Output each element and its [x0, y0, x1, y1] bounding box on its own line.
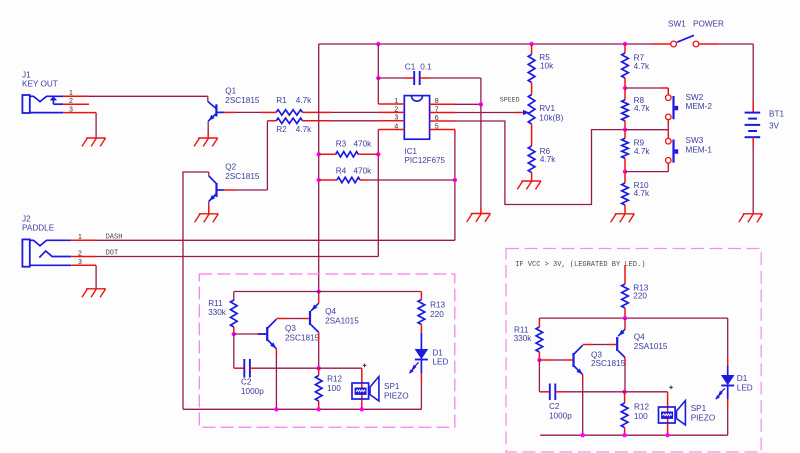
node SP1b rail junction — [665, 433, 669, 437]
label R7 — [634, 54, 645, 63]
pin J2.2 lead — [71, 256, 96, 258]
wire D1 to bottom rail — [420, 373, 422, 409]
wire R7 bottom lead — [624, 78, 626, 88]
svg-text:330k: 330k — [208, 308, 227, 317]
wire node to SP1 — [319, 368, 362, 409]
label C2b — [549, 402, 560, 411]
wire SW2 top — [625, 88, 668, 95]
label D1 — [432, 348, 443, 357]
svg-text:J1: J1 — [22, 70, 31, 79]
wire R13b bottom lead — [624, 308, 626, 318]
resistor R12b top lead — [624, 392, 626, 403]
label Q3 2SC1815 — [285, 333, 320, 342]
pin IC1.8 lead — [430, 103, 456, 105]
svg-text:470k: 470k — [354, 167, 373, 176]
node Q4 collector junction — [317, 366, 321, 370]
label IC1 PIC12F675 — [405, 156, 446, 165]
label RV1 value 10k(B) — [539, 114, 563, 123]
svg-text:C1: C1 — [405, 63, 416, 72]
label Q2 — [225, 163, 236, 172]
svg-text:RV1: RV1 — [539, 104, 555, 113]
wire R2 to IC pin3 — [331, 120, 378, 122]
wiper arrow RV1 — [523, 110, 529, 115]
label R4 — [336, 167, 347, 176]
label R2 value 4.7k — [296, 125, 312, 134]
pin number IC1.5 — [435, 123, 439, 130]
pin J1.1 lead — [63, 95, 89, 97]
label R8 value 4.7k — [634, 104, 650, 113]
pin IC1.7 lead — [430, 112, 456, 114]
wire box bottom rail — [183, 408, 421, 410]
svg-text:2SA1015: 2SA1015 — [325, 316, 359, 325]
label Q2 2SC1815 — [225, 172, 260, 181]
label R11 value 330k — [208, 308, 227, 317]
wire R5 to RV1 — [531, 83, 533, 95]
label R7 value 4.7k — [634, 62, 650, 71]
label Q4 — [325, 307, 336, 316]
label SW3 — [686, 136, 704, 145]
wire R9 top lead — [624, 130, 626, 139]
wire Q2 emitter — [208, 201, 210, 213]
wire SW3 top — [625, 130, 668, 139]
wire DOT line — [96, 256, 378, 258]
label R13b — [633, 283, 648, 292]
resistor R6 — [528, 146, 535, 173]
wire R8 bottom lead — [624, 121, 626, 130]
connector J1 tip contact — [30, 96, 64, 101]
wire SW2 bottom — [625, 120, 668, 130]
node R3 left junction — [317, 152, 321, 156]
pin number IC1.2 — [394, 106, 398, 113]
svg-text:5: 5 — [435, 123, 439, 130]
wire box top rail — [234, 291, 422, 293]
wire R1 right lead — [303, 111, 332, 113]
label R10 value 4.7k — [634, 189, 650, 198]
wire D1b to bottom rail — [727, 399, 729, 435]
svg-text:PADDLE: PADDLE — [22, 224, 55, 233]
wire R4 left lead — [319, 179, 337, 181]
svg-text:Q4: Q4 — [634, 333, 645, 342]
wire R2 left lead — [267, 120, 276, 122]
label Q1 — [225, 87, 236, 96]
wire RV1 to R6 — [531, 124, 533, 146]
connector J2 tip contact — [30, 240, 71, 246]
switch SW2 — [666, 95, 679, 120]
wire SP1b bottom lead — [0, 0, 1, 1]
node R11b Q3b junction — [537, 358, 541, 362]
label R5 — [539, 53, 550, 62]
label POWER — [693, 20, 724, 29]
node R4 left junction — [317, 178, 321, 182]
battery BT1 — [745, 102, 761, 214]
svg-text:220: 220 — [430, 310, 444, 319]
net label DOT — [106, 250, 119, 258]
svg-text:100: 100 — [634, 412, 648, 421]
transistor Q1 collector wire — [207, 96, 209, 101]
label R11b — [514, 326, 529, 335]
resistor R13b top stub — [624, 265, 626, 284]
wire right box top rail — [539, 317, 727, 319]
ground Q1 — [194, 138, 218, 146]
wire R5 top lead — [531, 44, 533, 54]
wire pin8 to ground column — [455, 103, 481, 105]
label R12b — [634, 403, 649, 412]
label R6 value 4.7k — [540, 155, 556, 164]
svg-text:Q2: Q2 — [225, 163, 236, 172]
transistor Q4b — [617, 329, 625, 357]
wire DASH line — [96, 239, 455, 241]
label SW1 — [668, 20, 686, 29]
pin number IC1.4 — [394, 123, 398, 130]
wire Q1 base to R1 — [235, 111, 261, 113]
label C2 value 1000p — [241, 387, 264, 396]
led D1 — [409, 349, 428, 374]
svg-text:BT1: BT1 — [769, 110, 784, 119]
pin number J1.1 — [69, 90, 73, 97]
svg-text:4: 4 — [394, 123, 398, 130]
plus marker SP1 — [363, 364, 367, 368]
wire J2.3 to ground — [95, 265, 97, 289]
wire Q4 collector down — [318, 332, 320, 368]
label R9 value 4.7k — [634, 147, 650, 156]
pin IC1.6 lead — [430, 120, 456, 122]
label SP1 — [384, 382, 400, 391]
wire J1.1 to Q1 collector — [89, 95, 208, 97]
wire VCC top rail — [319, 43, 671, 45]
wire VCC to C1 column — [377, 44, 379, 78]
svg-text:4.7k: 4.7k — [634, 189, 650, 198]
node pin5 R4 junction — [453, 178, 457, 182]
wire Q3b emitter down — [582, 375, 584, 436]
pin number IC1.8 — [435, 98, 439, 105]
pin number J2.2 — [78, 251, 82, 258]
wire R9 bottom lead — [624, 158, 626, 171]
wire pin7 to RV1 wiper — [455, 112, 524, 114]
label R12b value 100 — [634, 412, 648, 421]
wire R4 right lead — [360, 179, 369, 181]
wire Q3 collector to Q4 base — [276, 318, 308, 320]
pin J1.3 lead — [63, 112, 88, 114]
ground BT1 — [739, 214, 763, 222]
resistor R4 — [337, 177, 360, 182]
node VCC junction R7 — [623, 42, 627, 46]
svg-text:Q4: Q4 — [325, 307, 336, 316]
ic IC1 body — [404, 96, 429, 140]
label J1 — [22, 70, 31, 79]
switch SW1 — [671, 35, 699, 47]
ground IC1 VSS — [467, 214, 491, 222]
svg-text:D1: D1 — [737, 374, 748, 383]
wire R3 right lead — [358, 153, 378, 155]
svg-text:R11: R11 — [208, 299, 223, 308]
resistor R11 — [231, 300, 238, 327]
svg-text:10k: 10k — [540, 62, 554, 71]
wire rail to D1b — [727, 318, 729, 375]
label D1b — [737, 374, 748, 383]
label C1 — [405, 63, 416, 72]
svg-text:R4: R4 — [336, 167, 347, 176]
wire Q2 base to R2 — [235, 121, 267, 190]
wire R1 left lead — [261, 111, 276, 113]
svg-text:10k(B): 10k(B) — [539, 114, 563, 123]
svg-text:J2: J2 — [22, 214, 31, 223]
svg-text:4.7k: 4.7k — [634, 104, 650, 113]
resistor R10 — [622, 183, 629, 205]
svg-text:SPEED: SPEED — [500, 96, 520, 103]
svg-text:SW1: SW1 — [668, 20, 686, 29]
svg-text:8: 8 — [435, 98, 439, 105]
svg-text:R2: R2 — [276, 125, 287, 134]
resistor R12 top lead — [318, 368, 320, 375]
wire R11b junction to C2b — [538, 360, 540, 392]
svg-text:1: 1 — [69, 90, 73, 97]
wire R6 bottom lead — [531, 173, 533, 182]
resistor R12b — [621, 403, 628, 428]
node VCC junction R5 — [529, 42, 533, 46]
label R5 value 10k — [540, 62, 554, 71]
label SW3 MEM-1 — [686, 146, 713, 155]
wire node to SP1b — [625, 392, 668, 435]
wire Q3b collector to Q4b base — [583, 344, 617, 346]
node SP1 rail junction — [360, 407, 364, 411]
transistor Q2 collector stub — [208, 172, 210, 176]
wire SP1 bottom lead — [0, 0, 1, 1]
svg-text:1000p: 1000p — [549, 412, 572, 421]
speaker SP1b — [659, 401, 686, 425]
pin Q2 base lead — [224, 189, 235, 191]
net label SPEED — [500, 96, 520, 103]
wire VSS column down — [480, 104, 482, 213]
svg-text:4.7k: 4.7k — [634, 62, 650, 71]
svg-text:C2: C2 — [549, 402, 560, 411]
svg-text:R1: R1 — [276, 96, 287, 105]
node Q4b collector junction — [622, 390, 626, 394]
svg-text:D1: D1 — [432, 348, 443, 357]
wire R11b top lead — [538, 318, 540, 327]
label R4 value 470k — [354, 167, 373, 176]
svg-text:SP1: SP1 — [691, 404, 707, 413]
ground J2 — [82, 289, 106, 297]
box sidetone circuit (dashed) — [199, 274, 454, 427]
svg-text:R13: R13 — [430, 301, 445, 310]
wire R11 to Q3 base — [234, 333, 266, 335]
label R11b value 330k — [514, 334, 533, 343]
svg-text:3: 3 — [78, 259, 82, 266]
pin J2.3 lead — [71, 264, 96, 266]
label D1 LED — [432, 358, 448, 367]
capacitor C1 left lead — [378, 77, 414, 79]
node Q3 emitter rail junction — [274, 407, 278, 411]
svg-text:SP1: SP1 — [384, 382, 400, 391]
connector J1 sleeve pin3 — [30, 112, 64, 114]
label C2 — [241, 378, 252, 387]
label C1 value 0.1 — [420, 63, 432, 72]
wire C2 to Q4 collector — [258, 367, 319, 369]
label SP1b PIEZO — [691, 414, 716, 423]
wire VCC rail to SW1 right / BT1 — [699, 44, 753, 102]
pin IC1.5 lead — [430, 129, 456, 131]
label SW2 MEM-2 — [686, 102, 713, 111]
resistor R12 — [315, 376, 322, 402]
label J2 — [22, 214, 31, 223]
wire pin6 to MEM switches — [455, 121, 625, 205]
label SP1b — [691, 404, 707, 413]
svg-text:LED: LED — [737, 383, 753, 392]
svg-text:MEM-2: MEM-2 — [686, 102, 713, 111]
connector J2 sleeve pin3 — [30, 264, 71, 266]
ground R6 — [517, 181, 541, 189]
capacitor C2b — [550, 384, 556, 401]
resistor R3 — [336, 152, 359, 157]
svg-text:4.7k: 4.7k — [296, 96, 312, 105]
node R9 R10 junction — [623, 169, 627, 173]
wire R12 bottom lead — [318, 401, 320, 409]
svg-text:Q3: Q3 — [285, 324, 296, 333]
capacitor C2b left lead — [539, 391, 549, 393]
node R12 rail junction — [317, 407, 321, 411]
capacitor C2 — [244, 359, 250, 378]
svg-text:220: 220 — [633, 292, 647, 301]
wire C1 to VSS column — [430, 78, 481, 104]
switch SW3 — [666, 138, 679, 163]
transistor Q3 — [258, 319, 276, 349]
connector J2 ring contact — [39, 251, 71, 258]
svg-text:PIEZO: PIEZO — [691, 414, 716, 423]
connector J1 switch contact pin2 — [50, 96, 64, 104]
svg-text:POWER: POWER — [693, 20, 724, 29]
label SW2 — [686, 93, 704, 102]
svg-text:LED: LED — [432, 358, 448, 367]
svg-text:PIEZO: PIEZO — [384, 392, 409, 401]
wire R13 to D1 — [420, 325, 422, 350]
node pin4 R3 junction — [376, 152, 380, 156]
node R13b rail junction — [623, 316, 627, 320]
svg-text:6: 6 — [435, 115, 439, 122]
label R13b value 220 — [633, 292, 647, 301]
connector J2 jack body — [22, 239, 29, 266]
pin J2.1 lead — [71, 239, 96, 241]
svg-text:C2: C2 — [241, 378, 252, 387]
wire Q4b collector down — [624, 358, 626, 392]
pin number J1.3 — [69, 106, 73, 113]
svg-text:2: 2 — [69, 98, 73, 105]
svg-text:100: 100 — [327, 384, 341, 393]
resistor R13 top lead — [420, 292, 422, 300]
resistor R2 — [276, 118, 302, 123]
ground Q2 — [195, 214, 219, 222]
svg-text:R12: R12 — [327, 375, 342, 384]
label R12 — [327, 375, 342, 384]
wire C1 column to pin1 — [377, 78, 379, 104]
resistor R8 — [622, 100, 629, 121]
label Q3 — [285, 324, 296, 333]
label R8 — [634, 96, 645, 105]
label KEY OUT — [22, 80, 58, 89]
note IF VCC > 3V — [515, 261, 645, 269]
box alternate sidetone circuit (dashed) — [506, 249, 761, 453]
node R12b rail junction — [622, 433, 626, 437]
wire R12b bottom lead — [624, 428, 626, 436]
svg-text:1: 1 — [394, 98, 398, 105]
node C1 left junction — [376, 76, 380, 80]
svg-text:R3: R3 — [336, 140, 347, 149]
wire R10 bottom lead — [624, 205, 626, 214]
label Q3b 2SC1815 — [591, 359, 626, 368]
pin IC1.4 lead — [378, 129, 404, 131]
svg-text:SW2: SW2 — [686, 93, 704, 102]
label Q1 2SC1815 — [225, 96, 260, 105]
potentiometer RV1 — [528, 95, 535, 125]
svg-text:DASH: DASH — [106, 233, 123, 241]
label R12 value 100 — [327, 384, 341, 393]
wire R10 top lead — [624, 172, 626, 183]
label RV1 — [539, 104, 555, 113]
resistor R13b — [622, 284, 629, 308]
wire Q4b emitter lead — [624, 318, 626, 329]
label R13 — [430, 301, 445, 310]
pin IC1.3 lead — [378, 120, 404, 122]
speaker SP1 — [352, 377, 379, 401]
wire Q2 collector net — [183, 172, 209, 409]
svg-text:4.7k: 4.7k — [634, 147, 650, 156]
wire VCC into box junction — [317, 289, 321, 293]
label R10 — [634, 181, 649, 190]
svg-text:3V: 3V — [769, 122, 780, 131]
node VCC junction C1 column — [376, 42, 380, 46]
capacitor C2 left lead — [234, 367, 245, 369]
wire pin5 corner down — [454, 130, 456, 241]
resistor R13 — [418, 300, 425, 325]
label R1 value 4.7k — [296, 96, 312, 105]
resistor R7 — [622, 53, 629, 78]
connector J1 jack body — [22, 95, 29, 113]
wire Q1 emitter — [207, 121, 209, 138]
wire Q3 emitter down — [275, 349, 277, 410]
pin number IC1.3 — [394, 115, 398, 122]
label R2 — [276, 125, 287, 134]
svg-text:470k: 470k — [354, 140, 373, 149]
pin number IC1.7 — [435, 106, 439, 113]
svg-text:3: 3 — [394, 115, 398, 122]
pin IC1.1 lead — [378, 103, 404, 105]
resistor R9 — [622, 138, 629, 158]
svg-text:4.7k: 4.7k — [296, 125, 312, 134]
capacitor C1 right lead — [420, 77, 430, 79]
svg-text:3: 3 — [69, 106, 73, 113]
wire Q4 emitter lead — [318, 292, 320, 304]
led D1b — [715, 375, 734, 400]
wire SW3 bottom — [625, 163, 668, 171]
pin J1.2 lead — [63, 103, 89, 105]
svg-text:1000p: 1000p — [241, 387, 264, 396]
wire Q3 base to C2 — [233, 334, 235, 368]
label Q4 2SA1015 — [325, 316, 359, 325]
wire R4 to pin5 column — [369, 179, 455, 181]
transistor Q1 — [208, 102, 224, 122]
label R3 value 470k — [354, 140, 373, 149]
label Q3b — [591, 350, 602, 359]
node R11 Q3 base junction — [232, 332, 236, 336]
label R13 value 220 — [430, 310, 444, 319]
wire R1 to IC pin2 — [331, 111, 378, 113]
wire R11b to Q3b base — [539, 359, 572, 361]
svg-text:330k: 330k — [514, 334, 533, 343]
wire R11 bottom lead — [233, 327, 235, 334]
ground J1 — [82, 138, 106, 146]
pin number IC1.6 — [435, 115, 439, 122]
resistor R1 — [276, 110, 302, 115]
label R9 — [634, 139, 645, 148]
